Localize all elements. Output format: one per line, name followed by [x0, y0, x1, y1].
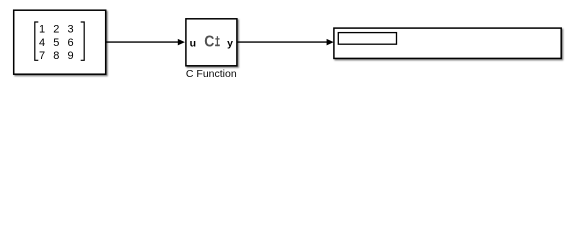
svg-text:C Function: C Function: [186, 68, 237, 80]
matrix value row 3: [39, 50, 74, 62]
C icon plus-minus mark: [215, 36, 220, 46]
svg-text:u: u: [190, 37, 196, 49]
wire: constant to C Function: [106, 41, 179, 43]
matrix value row 2: [39, 37, 74, 49]
svg-text:2: 2: [53, 23, 59, 35]
svg-text:5: 5: [53, 37, 59, 49]
svg-text:3: 3: [68, 23, 74, 35]
wire: C Function to Display: [237, 41, 328, 43]
matrix right bracket: [81, 22, 85, 60]
display block outer frame: [334, 28, 561, 58]
svg-text:9: 9: [68, 50, 74, 62]
svg-text:C: C: [204, 34, 214, 51]
svg-text:y: y: [227, 37, 233, 49]
arrowhead into C Function input: [178, 39, 185, 46]
svg-text:7: 7: [39, 50, 45, 62]
svg-text:6: 6: [68, 37, 74, 49]
svg-text:4: 4: [39, 37, 45, 49]
constant block (matrix source): [14, 10, 106, 74]
svg-text:8: 8: [53, 50, 59, 62]
C Function block: [186, 19, 237, 66]
svg-text:1: 1: [39, 23, 45, 35]
display block inner value cell: [338, 33, 396, 45]
matrix left bracket: [35, 22, 39, 60]
matrix value row 1: [39, 23, 74, 35]
arrowhead into Display input: [327, 39, 334, 46]
